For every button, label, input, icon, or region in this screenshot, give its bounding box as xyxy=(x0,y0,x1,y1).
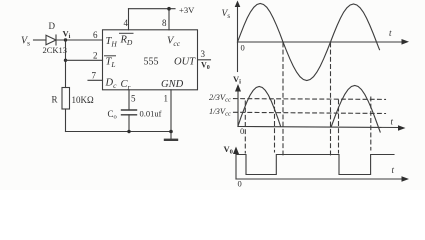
wire to pin 2 xyxy=(66,59,103,61)
dashed timing line t2 xyxy=(274,100,276,152)
svg-text:3: 3 xyxy=(201,49,206,59)
junction node to pin 2 xyxy=(64,59,67,62)
svg-text:R: R xyxy=(52,95,58,105)
IC 555 body xyxy=(103,30,198,90)
pin 8 wire xyxy=(168,9,170,30)
svg-text:0: 0 xyxy=(238,179,242,189)
svg-text:5: 5 xyxy=(131,94,136,104)
junction cap bottom xyxy=(127,130,130,133)
wire resistor to bottom rail xyxy=(65,109,67,132)
svg-text:D: D xyxy=(49,21,56,31)
label RD with overline xyxy=(120,33,134,47)
svg-text:0: 0 xyxy=(240,126,244,136)
wire cap to bottom rail xyxy=(128,115,130,132)
svg-text:10KΩ: 10KΩ xyxy=(72,95,94,105)
pin 3 OUT stub xyxy=(198,49,211,71)
Vs x-axis xyxy=(238,41,403,43)
capacitor Co 0.01uf xyxy=(108,109,162,121)
svg-text:+3V: +3V xyxy=(179,5,195,15)
svg-text:2CK13: 2CK13 xyxy=(43,45,68,55)
wire Vs to diode xyxy=(34,39,47,41)
svg-text:4: 4 xyxy=(124,18,129,28)
svg-text:8: 8 xyxy=(162,18,167,28)
Vs sine wave xyxy=(238,4,380,81)
svg-text:0: 0 xyxy=(241,43,245,53)
dashed timing line t3 xyxy=(282,43,284,158)
wire Vi node down xyxy=(65,40,67,88)
top supply wire xyxy=(129,8,176,10)
dashed timing line t5 xyxy=(338,100,340,153)
Vo square wave xyxy=(236,155,394,175)
svg-text:GND: GND xyxy=(161,79,184,90)
junction supply node xyxy=(167,7,171,11)
node Vi xyxy=(64,38,67,41)
pin 7 stub xyxy=(88,79,103,81)
ground symbol xyxy=(165,139,177,141)
wire diode to pin 6 xyxy=(56,39,103,41)
junction ground node xyxy=(169,130,173,134)
Vi x-axis xyxy=(238,127,399,128)
svg-text:0.01uf: 0.01uf xyxy=(140,109,162,119)
pin 1 wire xyxy=(170,90,172,140)
Vo y-axis xyxy=(235,150,237,179)
pin 5 wire xyxy=(128,90,130,110)
1/3 Vcc dashed threshold xyxy=(234,112,386,113)
diode D 2CK13 xyxy=(43,21,68,55)
bottom rail wire xyxy=(66,131,172,133)
resistor R 10K xyxy=(52,88,94,110)
dashed timing line t6 xyxy=(370,97,372,150)
label TL with overline xyxy=(105,56,116,69)
2/3 Vcc dashed threshold xyxy=(234,98,386,101)
Vi y-axis xyxy=(237,88,239,127)
svg-text:6: 6 xyxy=(93,30,98,40)
svg-text:7: 7 xyxy=(92,71,97,81)
Vs y-axis xyxy=(237,5,239,72)
Vi hump 2 xyxy=(332,86,381,133)
Vo x-axis xyxy=(236,178,402,180)
pin 4 wire xyxy=(128,9,130,30)
svg-text:1: 1 xyxy=(164,94,169,104)
svg-text:2: 2 xyxy=(93,51,98,61)
svg-text:555: 555 xyxy=(144,57,159,68)
dashed timing line t1 xyxy=(244,101,246,153)
svg-text:OUT: OUT xyxy=(174,57,196,68)
Vi hump 1 xyxy=(238,87,281,127)
dashed timing line t4 xyxy=(330,43,332,158)
